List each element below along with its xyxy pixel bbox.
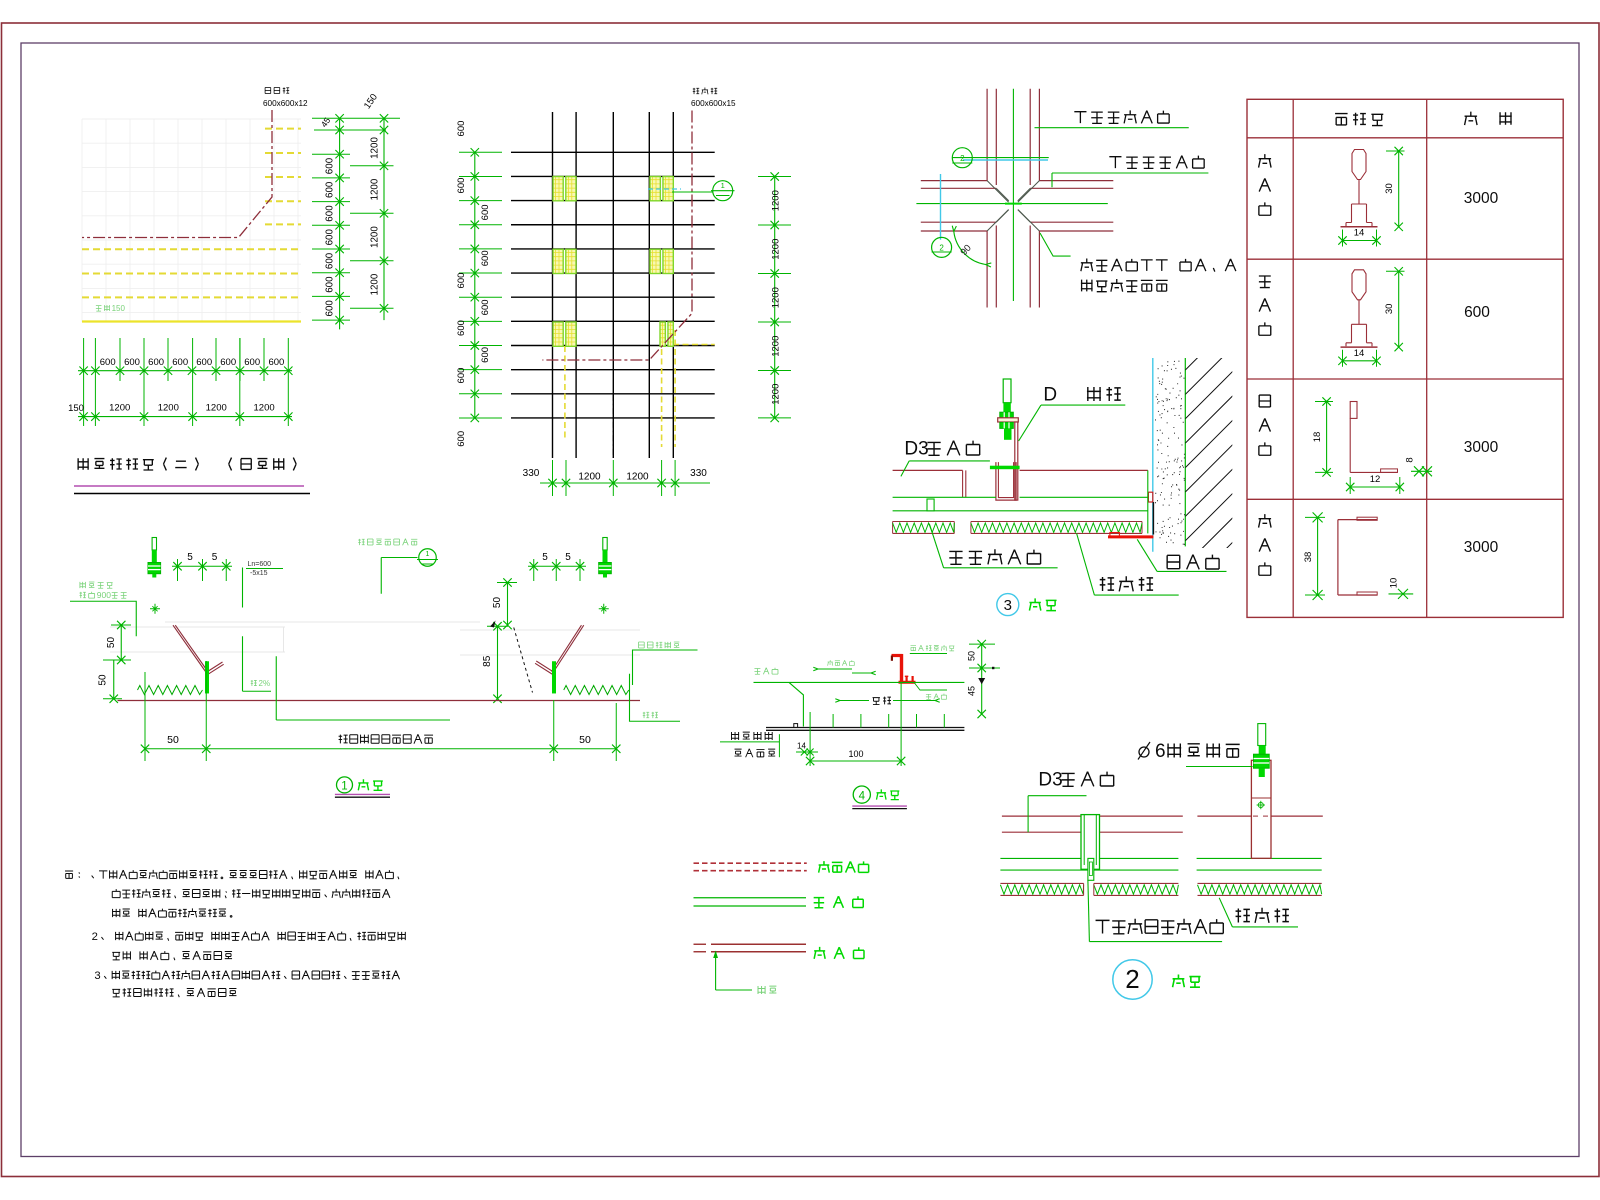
svg-text:1200: 1200: [370, 226, 381, 248]
svg-text:1200: 1200: [109, 403, 130, 414]
detail1: red wire V right: [554, 625, 584, 671]
notes block: [65, 871, 80, 878]
svg-text:1200: 1200: [626, 472, 649, 483]
svg-text:D3: D3: [904, 439, 928, 460]
detail1: black dashed diagonal: [514, 628, 533, 693]
svg-text:3000: 3000: [1464, 439, 1499, 456]
svg-text:1200: 1200: [771, 239, 782, 260]
svg-text:900: 900: [97, 590, 111, 600]
detail4: panel black lines: [766, 727, 964, 729]
detail2: steel rod hanger box: [1251, 760, 1271, 858]
cross detail: note leader: [1040, 233, 1071, 256]
cross detail: section bubble top: [952, 148, 972, 168]
svg-text:1200: 1200: [206, 403, 227, 414]
detail3: clip bar green: [990, 466, 1020, 470]
detail1: middle leader texts: [242, 568, 244, 608]
svg-text:2: 2: [939, 244, 944, 253]
detail4: comb ticks: [832, 714, 834, 728]
svg-text:600: 600: [124, 357, 140, 368]
svg-text:600: 600: [325, 181, 336, 198]
svg-text:600: 600: [325, 157, 336, 174]
cross detail: 90 degree arc dim: [954, 232, 986, 265]
cross detail: mitre diagonals: [987, 181, 1039, 231]
svg-text:600: 600: [325, 300, 336, 317]
svg-text:600x600x12: 600x600x12: [263, 99, 308, 108]
detail4: left label: [754, 668, 778, 675]
svg-text:600: 600: [480, 250, 491, 266]
plan1 title: [77, 458, 296, 471]
svg-text:D: D: [1043, 385, 1057, 406]
detail1: red wire V left: [173, 625, 206, 671]
cross detail: label cross runner: [1109, 156, 1204, 169]
cross detail: cyan section line top: [952, 157, 1049, 159]
svg-text:38: 38: [1303, 552, 1314, 563]
svg-text:600: 600: [100, 357, 116, 368]
plan2: bottom dims: [552, 460, 554, 496]
svg-text:3000: 3000: [1464, 539, 1499, 556]
svg-text:Ln=600: Ln=600: [248, 561, 272, 568]
row3 dims: [1326, 402, 1328, 473]
detail3: hanger nut lower: [1000, 422, 1014, 428]
svg-text:8: 8: [1405, 457, 1416, 462]
detail2: red carrier line right: [1197, 815, 1251, 817]
svg-text:600: 600: [148, 357, 164, 368]
detail3: insulation band: [893, 521, 955, 523]
detail1: dim 50 upper: [120, 625, 122, 660]
svg-text:50: 50: [579, 734, 591, 746]
svg-text:5: 5: [565, 552, 571, 563]
detail1: star marks: [150, 608, 160, 610]
detail1: dim 50/85 right side: [507, 583, 509, 626]
legend: main runner red: [694, 943, 707, 945]
detail1: green hanger rods: [205, 661, 209, 693]
svg-text:14: 14: [1354, 228, 1365, 239]
detail1: ghost outline: [110, 622, 640, 655]
legend: cross runner green: [694, 897, 807, 899]
plan2: section mark circle: [672, 191, 713, 193]
svg-text:3: 3: [1004, 597, 1012, 614]
legend: hanging point leader: [715, 952, 717, 990]
detail3: ceiling red line: [893, 469, 963, 471]
plan2: dashed centerline: [612, 395, 614, 458]
detail4: detail mark 4: [853, 786, 870, 803]
svg-text:600x600x15: 600x600x15: [691, 99, 736, 108]
detail2: rod top: [1258, 724, 1266, 746]
svg-text:50: 50: [167, 734, 179, 746]
svg-text:2: 2: [960, 154, 965, 163]
detail3: hanger bracket red L: [998, 418, 1019, 422]
detail3: wall face green line: [1184, 358, 1186, 546]
svg-text:600: 600: [456, 368, 467, 384]
svg-text:18: 18: [1312, 432, 1323, 443]
svg-text:1200: 1200: [370, 137, 381, 159]
detail4: arrows row: [818, 668, 852, 670]
svg-text:1200: 1200: [771, 336, 782, 357]
detail1: bottom dim: [145, 748, 616, 750]
detail1: dim 50 lower: [113, 660, 115, 699]
table header: [1335, 113, 1383, 126]
detail1: left label light green: [80, 582, 113, 588]
svg-text:2: 2: [92, 931, 98, 943]
svg-text:1200: 1200: [771, 384, 782, 405]
detail1: lamp label + symbol top right: [358, 539, 417, 546]
svg-text:600: 600: [325, 228, 336, 245]
detail3: hanger rod: [1003, 379, 1011, 403]
cross detail: section bubble left: [932, 237, 952, 257]
detail4: red Z profile thick: [892, 654, 903, 657]
svg-text:600: 600: [456, 320, 467, 336]
svg-text:3: 3: [94, 970, 100, 982]
detail1: left leader: [70, 601, 136, 636]
detail2: slotted runner channel: [1081, 815, 1100, 870]
detail2: insulation right: [1198, 882, 1322, 884]
detail2: label mineral board: [1236, 908, 1289, 923]
svg-text:600: 600: [456, 431, 467, 447]
detail1: dim 5 5 left: [172, 565, 232, 567]
svg-text:4: 4: [859, 790, 866, 802]
table: cross runner section glyph row2: [1352, 270, 1366, 300]
detail4: dim 100: [810, 760, 901, 762]
detail1: hanger bolt left: [152, 538, 156, 551]
detail3: D3 carrier channel: [996, 462, 1016, 500]
plan2: yellow dashed lines: [564, 346, 566, 440]
svg-text:600: 600: [325, 205, 336, 222]
detail2: detail mark 2: [1113, 960, 1152, 999]
detail1: spring squiggles: [138, 686, 203, 695]
plan1: right dim column 1200: [383, 118, 385, 320]
plan2: left dim column: [474, 152, 476, 418]
detail3: wall finish cyan line: [1152, 358, 1154, 552]
detail1: center-right leader: [275, 656, 277, 720]
table row labels: [1259, 154, 1272, 167]
detail1: right leader 2: [630, 674, 681, 722]
cross detail: green centerlines: [1012, 89, 1014, 301]
detail1: ceiling red line: [118, 700, 641, 702]
svg-text:100: 100: [848, 749, 863, 759]
detail3: grid clip section: [927, 499, 934, 511]
svg-text:1200: 1200: [578, 472, 601, 483]
row4 dims: [1317, 517, 1319, 595]
detail4: dim 14: [809, 712, 811, 766]
svg-text:600: 600: [325, 252, 336, 269]
svg-text:600: 600: [480, 204, 491, 220]
table: carrier section glyph row4: [1337, 520, 1339, 595]
svg-text:14: 14: [797, 742, 806, 751]
svg-text:45: 45: [967, 686, 977, 696]
detail4: center text 100 row: [873, 697, 891, 705]
legend: cross furring dashed red: [694, 862, 807, 864]
svg-text:150: 150: [68, 403, 84, 414]
svg-text:600: 600: [456, 121, 467, 137]
plan1: bottom dim row 1200s: [78, 416, 292, 418]
table frame: [1247, 99, 1563, 617]
table: edge runner section glyph row3: [1350, 402, 1357, 419]
detail3: T-grid green lines: [893, 496, 996, 498]
svg-text:600: 600: [1464, 304, 1490, 321]
detail3: concrete speckle: [1155, 361, 1185, 544]
detail2: insulation left: [1000, 882, 1083, 884]
svg-text:1200: 1200: [771, 190, 782, 211]
svg-text:50: 50: [98, 674, 109, 686]
detail2: T-grid green lines: [1000, 857, 1178, 859]
plan2: black grid verticals: [552, 112, 554, 458]
svg-text:600: 600: [480, 299, 491, 315]
detail3: label edge runner: [1167, 555, 1219, 570]
detail4: left label block: [731, 732, 773, 740]
svg-text:1: 1: [426, 551, 430, 558]
svg-text:330: 330: [690, 468, 707, 479]
detail2: label phi6 rod: [1139, 747, 1149, 757]
detail3: hanger nut upper: [1000, 412, 1014, 418]
svg-text:85: 85: [482, 655, 493, 667]
detail3: label mineral board: [1100, 576, 1153, 591]
detail4: main green line: [754, 681, 965, 683]
svg-text:2: 2: [1125, 964, 1139, 994]
svg-text:330: 330: [523, 468, 540, 479]
plan2: top material label: [693, 88, 717, 95]
svg-text:1200: 1200: [254, 403, 275, 414]
detail2: red carrier lines left: [1002, 815, 1183, 817]
cross detail: main runner vertical double lines: [986, 89, 988, 181]
svg-text:12: 12: [1370, 474, 1381, 485]
svg-text:600: 600: [456, 273, 467, 289]
svg-text:D3: D3: [1038, 770, 1062, 791]
plan1: top material label: [265, 87, 289, 93]
detail1: right leader 1: [633, 650, 698, 685]
svg-text:600: 600: [196, 357, 212, 368]
svg-text:600: 600: [456, 178, 467, 194]
detail3: label slot runner: [949, 549, 1040, 564]
plan1: red room boundary polyline: [82, 110, 272, 238]
detail4: right small label 1: [910, 645, 954, 651]
svg-text:600: 600: [480, 347, 491, 363]
svg-text:1200: 1200: [771, 287, 782, 308]
detail4: level dims right: [981, 644, 983, 714]
svg-text:600: 600: [220, 357, 236, 368]
svg-text:1: 1: [341, 781, 347, 793]
svg-text:50: 50: [967, 651, 977, 661]
svg-text:30: 30: [1384, 304, 1395, 315]
svg-text:10: 10: [1389, 578, 1400, 589]
plan2: light panels (hatched): [553, 177, 563, 201]
svg-text:50: 50: [106, 637, 117, 649]
svg-text:6: 6: [1155, 741, 1166, 762]
detail1: detail mark 1: [337, 777, 353, 793]
detail1: dim 5 5 right: [528, 565, 586, 567]
svg-text:50: 50: [492, 597, 503, 609]
plan1: bottom dim row 600s: [119, 338, 121, 381]
plan1: gray grid: [82, 119, 301, 322]
svg-text:1200: 1200: [370, 273, 381, 295]
cross detail: label main runner: [1074, 110, 1169, 123]
svg-text:600: 600: [325, 276, 336, 293]
detail4: notch: [794, 724, 798, 728]
svg-text:600: 600: [268, 357, 284, 368]
detail3: edge angle flange thick red: [1108, 535, 1153, 538]
detail1: center label: [339, 734, 433, 743]
svg-text:14: 14: [1354, 348, 1365, 359]
svg-text:-5x15: -5x15: [250, 570, 268, 577]
plan2: right dim column 1200: [774, 177, 776, 418]
detail4: right small label 2: [915, 683, 948, 690]
plan1: right dim column 600: [339, 118, 341, 329]
plan1: yellow dashed furring lines: [265, 128, 301, 130]
svg-text:5: 5: [212, 552, 218, 563]
svg-text:3000: 3000: [1464, 190, 1499, 207]
svg-text:5: 5: [187, 552, 193, 563]
svg-text:600: 600: [172, 357, 188, 368]
cross detail: cyan section line left: [940, 174, 942, 240]
plan2: black grid horizontals: [511, 151, 715, 153]
svg-text:150: 150: [112, 304, 126, 313]
detail1: hanger bolt right: [603, 538, 607, 551]
svg-text:1200: 1200: [370, 178, 381, 200]
cross detail: cross runner horizontal double lines: [921, 180, 987, 182]
detail2: rod center mark: [1258, 802, 1263, 807]
plan2: red boundary: [542, 111, 692, 361]
svg-text:1200: 1200: [158, 403, 179, 414]
svg-text:2%: 2%: [259, 679, 271, 688]
svg-text:30: 30: [1384, 183, 1395, 194]
detail3: detail mark 3: [997, 594, 1019, 616]
detail3: wall angle red: [1148, 492, 1152, 502]
svg-text:600: 600: [244, 357, 260, 368]
detail2: label slotted runner: [1096, 919, 1224, 934]
title underline magenta: [74, 485, 304, 487]
svg-text:5: 5: [542, 552, 548, 563]
title underline black: [74, 493, 310, 495]
svg-text:1: 1: [721, 181, 725, 190]
table: main runner section glyph row1: [1352, 150, 1366, 180]
